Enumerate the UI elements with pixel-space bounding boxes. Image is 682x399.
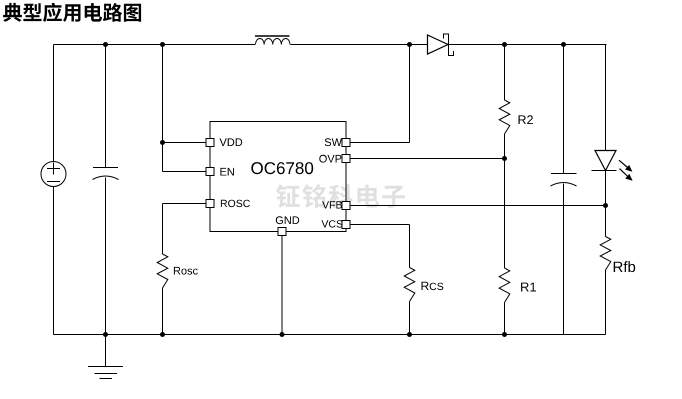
pin SW (342, 139, 350, 147)
wire ROSC pin left (163, 203, 206, 205)
junction rail / C1 (103, 332, 108, 337)
wire VCS right (350, 224, 410, 226)
wire Rosc to ground rail (162, 288, 164, 335)
label R2 (519, 115, 533, 124)
wire source bottom (53, 187, 55, 335)
wire VCS down to RCS (409, 225, 411, 268)
junction OVP / R2 (502, 156, 507, 161)
wire C2 top (563, 45, 565, 174)
resistor Rosc (157, 254, 168, 288)
wire R1 bottom (504, 303, 506, 335)
label pin VCS (322, 220, 343, 227)
label pin SW (325, 138, 342, 146)
pin ROSC (206, 200, 214, 208)
ground (105, 335, 107, 367)
pin GND (278, 228, 286, 236)
junction rail / Rosc (160, 332, 165, 337)
junction top rail / VDD branch (160, 42, 165, 47)
watermark text 钲铭科电子 (276, 184, 405, 208)
resistor R1 (499, 268, 510, 303)
wire LED to Rfb (605, 171, 607, 237)
label Rfb (614, 261, 636, 272)
title 典型应用电路图 (3, 3, 141, 22)
label pin GND (276, 216, 299, 224)
label pin ROSC (221, 200, 250, 207)
wire RCS to ground rail (409, 302, 411, 335)
inductor L1 (255, 35, 290, 37)
wire source top (53, 45, 55, 162)
label OC6780 (251, 162, 313, 174)
label pin EN (220, 168, 234, 176)
junction SW / top rail (407, 42, 412, 47)
junction R1 / rail (502, 332, 507, 337)
label R1 (521, 283, 536, 292)
LED D2 (595, 151, 616, 171)
voltage source V1 (41, 162, 66, 187)
wire SW right (350, 142, 410, 144)
pin VFB (342, 202, 350, 210)
schottky diode D1 (428, 35, 449, 54)
junction GND / rail (280, 332, 285, 337)
wire input cap bottom (105, 178, 107, 335)
wire C2 bottom (563, 184, 565, 335)
wire input cap top (105, 45, 107, 168)
wire to VDD pin (163, 142, 206, 144)
pin VCS (342, 221, 350, 229)
wire ROSC down (162, 204, 164, 255)
label pin OVP (319, 155, 341, 163)
wire Rfb bottom (605, 270, 607, 335)
wire VDD/EN branch (162, 45, 164, 172)
junction RCS / rail (407, 332, 412, 337)
junction top rail / C1 (103, 42, 108, 47)
LED arrows (619, 160, 632, 180)
wire VFB to LED cathode (350, 205, 606, 207)
wire top rail middle (291, 44, 428, 46)
wire R2-R1 (504, 134, 506, 268)
resistor RCS (404, 268, 415, 302)
wire top rail right (449, 44, 607, 46)
label pin VDD (220, 138, 243, 146)
resistor R2 (499, 100, 510, 134)
pin VDD (206, 139, 214, 147)
resistor Rfb (600, 237, 611, 271)
wire GND pin down (281, 236, 283, 335)
label RCS (422, 282, 444, 290)
junction VDD branch (160, 140, 165, 145)
op IC U1 OC6780 body (210, 122, 346, 232)
wire to EN pin (163, 171, 206, 173)
wire R2 top (504, 45, 506, 101)
wire SW up to diode (409, 45, 411, 143)
junction top rail / C2 (561, 42, 566, 47)
label pin VFB (322, 201, 342, 208)
label Rosc (174, 267, 198, 275)
pin OVP (342, 155, 350, 163)
wire bottom rail (54, 334, 606, 336)
wire top rail left (54, 44, 256, 46)
pin EN (206, 168, 214, 176)
capacitor C2 (output) (551, 173, 577, 175)
wire LED anode (605, 45, 607, 151)
junction top rail / R2 (502, 42, 507, 47)
wire OVP to R2 (350, 158, 505, 160)
junction VFB / LED (603, 203, 608, 208)
capacitor C1 (input) (93, 167, 118, 169)
